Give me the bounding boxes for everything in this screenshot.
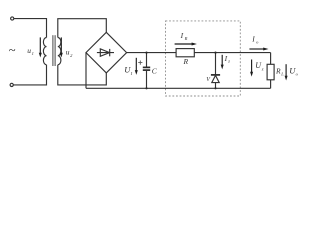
svg-text:z: z [227,59,230,64]
svg-text:~: ~ [9,43,16,57]
svg-text:1: 1 [32,51,34,56]
svg-text:L: L [280,71,284,76]
svg-text:I: I [224,54,228,63]
svg-text:R: R [275,67,281,76]
svg-text:u: u [27,46,31,55]
svg-text:R: R [183,57,189,66]
svg-text:I: I [251,35,255,44]
svg-text:I: I [180,31,184,40]
svg-text:R: R [184,36,188,41]
svg-text:z: z [261,66,264,71]
